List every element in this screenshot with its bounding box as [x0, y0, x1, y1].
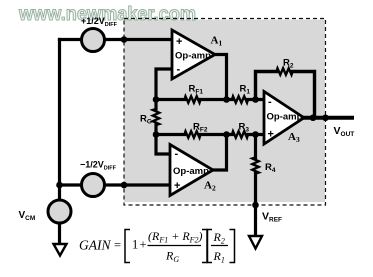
svg-text:GAIN: GAIN — [79, 238, 111, 253]
svg-text:+: + — [140, 238, 147, 252]
svg-text:-: - — [175, 148, 179, 160]
svg-text:+: + — [268, 129, 274, 141]
svg-text:-: - — [268, 96, 272, 108]
svg-text:Op-amp: Op-amp — [175, 51, 211, 62]
svg-text:Op-amp: Op-amp — [173, 166, 209, 177]
svg-text:Op-amp: Op-amp — [267, 112, 303, 123]
svg-text:-: - — [177, 64, 181, 76]
svg-text:1: 1 — [132, 238, 138, 252]
svg-text:+: + — [174, 180, 180, 192]
svg-text:+: + — [176, 36, 182, 48]
svg-text:=: = — [114, 238, 121, 252]
